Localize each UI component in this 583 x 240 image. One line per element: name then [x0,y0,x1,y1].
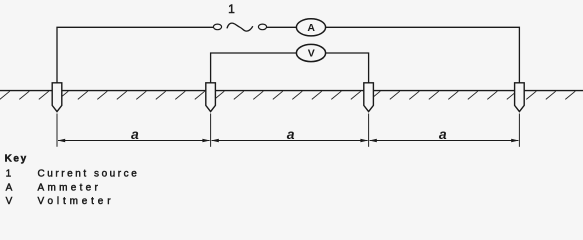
svg-text:1: 1 [6,169,12,180]
svg-text:V: V [308,48,315,60]
svg-text:A: A [307,22,315,34]
svg-text:Voltmeter: Voltmeter [38,196,115,207]
svg-text:a: a [131,126,139,142]
svg-text:a: a [439,126,447,142]
svg-text:a: a [287,126,295,142]
svg-text:A: A [6,182,13,193]
svg-text:V: V [6,196,13,207]
svg-text:Ammeter: Ammeter [38,182,102,193]
svg-text:Key: Key [5,153,28,164]
svg-text:Current source: Current source [38,169,140,180]
svg-text:1: 1 [228,2,235,16]
